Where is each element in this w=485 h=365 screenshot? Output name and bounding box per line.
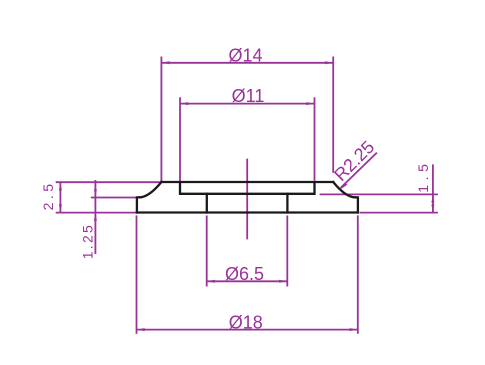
dimension D18 right extension line: [357, 215, 359, 333]
dimension D14 left extension line: [160, 57, 162, 182]
right fillet R2.25: [333, 182, 355, 197]
svg-text:Ø6.5: Ø6.5: [225, 264, 264, 284]
dimension 1.5 dimension line: [432, 164, 434, 212]
svg-text:2.5: 2.5: [40, 180, 56, 210]
radius leader R2.25 arrowhead: [340, 182, 347, 189]
dimension 1.5 bottom arrowhead: [431, 204, 434, 212]
svg-text:Ø18: Ø18: [229, 312, 263, 332]
dimension D6.5 left arrowhead: [207, 280, 215, 283]
svg-text:1.5: 1.5: [415, 160, 431, 193]
part bottom face: [137, 211, 358, 213]
dimension 2.5 bottom arrowhead: [59, 204, 62, 212]
right flange top and right edge: [356, 197, 358, 212]
dimension 2.5 bottom extension line: [56, 212, 137, 214]
dimension 1.25 dimension line: [94, 180, 96, 254]
dimension D11 left extension line: [179, 97, 181, 181]
dimension D18 dimension line: [137, 329, 358, 331]
dimension D11 right extension line: [314, 97, 316, 180]
dimension D6.5 right extension line: [286, 216, 288, 287]
top recess step profile: [180, 182, 315, 194]
centerline: [246, 159, 248, 240]
dimension D6.5 left extension line: [206, 216, 208, 287]
dimension D14 right extension line: [332, 57, 334, 173]
dimension D18 right arrowhead: [350, 328, 358, 331]
svg-text:1.25: 1.25: [80, 223, 96, 259]
dimension D6.5 dimension line: [207, 280, 288, 282]
dimension 1.25 bottom arrowhead (outside): [94, 213, 97, 221]
part top face: [161, 181, 333, 183]
svg-text:Ø14: Ø14: [228, 45, 262, 65]
right hole wall: [286, 194, 288, 213]
dimension D14 dimension line: [161, 62, 333, 64]
dimension 2.5 top arrowhead: [59, 182, 62, 190]
dimension D14 right arrowhead: [325, 61, 333, 64]
dimension D18 left extension line: [136, 215, 138, 333]
left fillet R2.25: [139, 182, 161, 197]
svg-text:Ø11: Ø11: [232, 86, 265, 106]
dimension D11 dimension line: [180, 103, 315, 105]
dimension D18 left arrowhead: [137, 328, 145, 331]
dimension 1.5 bottom extension line: [360, 212, 438, 214]
dimension D6.5 right arrowhead: [279, 280, 287, 283]
dimension D11 left arrowhead: [180, 102, 188, 105]
dimension 1.25 top arrowhead (outside): [94, 189, 97, 197]
radius leader R2.25 line: [341, 153, 377, 188]
dimension 1.5 top arrowhead: [431, 194, 434, 202]
dimension 2.5 dimension line: [59, 182, 61, 212]
dimension 1.25 extension line: [91, 197, 137, 199]
dimension D11 right arrowhead: [306, 102, 314, 105]
left flange top and left edge: [137, 197, 139, 212]
left hole wall: [206, 194, 208, 213]
dimension 2.5 top extension line: [56, 181, 162, 183]
dimension D14 left arrowhead: [161, 61, 169, 64]
dimension 1.5 top extension line: [320, 193, 438, 195]
